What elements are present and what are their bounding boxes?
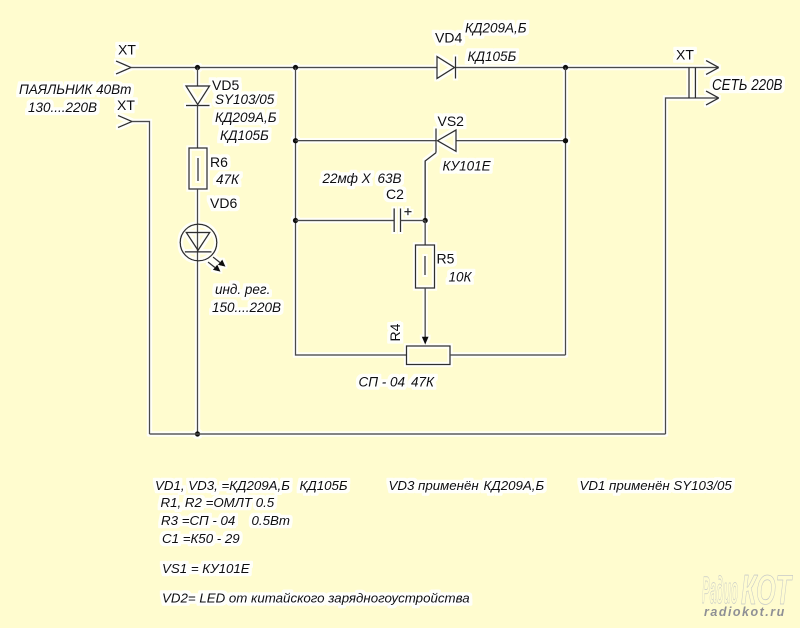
wire VS2 gate [425, 153, 436, 221]
capacitor C2 [394, 208, 400, 232]
svg-text:47К: 47К [216, 172, 240, 187]
svg-text:R1, R2 =ОМЛТ 0.5: R1, R2 =ОМЛТ 0.5 [161, 495, 275, 510]
svg-text:22мф Х: 22мф Х [322, 171, 372, 186]
svg-text:СП - 04: СП - 04 [359, 375, 406, 390]
thyristor VS2 [436, 129, 456, 153]
svg-text:150....220В: 150....220В [212, 300, 281, 315]
svg-text:КД105Б: КД105Б [468, 49, 517, 64]
svg-text:КД209А,Б: КД209А,Б [215, 110, 277, 125]
wire right side riser [666, 98, 719, 434]
svg-text:XT: XT [117, 97, 135, 113]
connector pin arrow top [706, 61, 719, 75]
svg-text:R4: R4 [387, 323, 403, 341]
LED VD6 [180, 224, 217, 261]
svg-text:63В: 63В [378, 171, 402, 186]
node: gate / C2 / R5 [423, 218, 428, 223]
connector pin arrow bottom [706, 91, 719, 105]
svg-text:XT: XT [118, 42, 136, 58]
wire C2 right [401, 220, 426, 222]
svg-text:VS2: VS2 [438, 113, 465, 129]
svg-text:VD6: VD6 [210, 195, 237, 211]
terminal XT2 arrow [118, 116, 132, 128]
svg-text:ПАЯЛЬНИК 40Вт: ПАЯЛЬНИК 40Вт [19, 82, 131, 97]
svg-text:VD4: VD4 [435, 30, 462, 46]
svg-text:47К: 47К [411, 375, 435, 390]
diode VD5 [186, 86, 210, 106]
resistor R6 [189, 148, 207, 189]
svg-text:10К: 10К [449, 270, 473, 285]
node: top wire / VD5 branch [195, 65, 200, 70]
wire VS2 anode [456, 140, 566, 142]
wire bottom rail [150, 433, 666, 435]
wire mid vertical [296, 68, 407, 356]
connector XT plug bars [689, 68, 695, 99]
resistor R5 [416, 245, 435, 288]
svg-text:VD1 применён SY103/05: VD1 применён SY103/05 [580, 478, 733, 493]
svg-text:инд. рег.: инд. рег. [215, 282, 270, 297]
node: top wire / right vertical [563, 65, 568, 70]
svg-text:СЕТЬ 220В: СЕТЬ 220В [712, 77, 783, 94]
svg-text:VD3 применён: VD3 применён [389, 478, 480, 493]
node: mid vertical / VS2 wire [293, 138, 298, 143]
wire C2 left [296, 220, 395, 222]
svg-text:КД105Б: КД105Б [300, 478, 348, 493]
wire top rail right of VD4 to plug [456, 67, 719, 69]
wire VD5 to R6 [197, 106, 199, 149]
svg-text:R5: R5 [437, 251, 455, 267]
wire top rail left of VD4 [131, 67, 437, 69]
C2 polarity plus [404, 208, 411, 215]
terminal XT1 arrow [116, 61, 131, 74]
wire VS2 cathode [296, 140, 437, 142]
svg-text:КУ101Е: КУ101Е [443, 159, 492, 174]
wire XT2 down left side [132, 122, 150, 435]
wire R4 right to right vertical [450, 354, 566, 356]
wire right vertical [565, 68, 567, 356]
svg-text:0.5Вт: 0.5Вт [252, 513, 290, 528]
wire R5 to R4 wiper [424, 288, 426, 337]
R4 wiper arrowhead [422, 337, 429, 345]
node: right vertical / VS2 wire [563, 138, 568, 143]
wire VD5 branch upper [197, 68, 199, 87]
svg-text:КД209А,Б: КД209А,Б [465, 21, 527, 36]
svg-text:XT: XT [676, 47, 694, 63]
svg-text:КД105Б: КД105Б [220, 128, 269, 143]
svg-text:КД209А,Б: КД209А,Б [484, 478, 545, 493]
svg-text:С2: С2 [386, 186, 404, 202]
potentiometer R4 [407, 346, 451, 365]
node: mid vertical / C2 wire [293, 218, 298, 223]
node: top wire / mid vertical [293, 65, 298, 70]
svg-text:С1 =К50 - 29: С1 =К50 - 29 [162, 531, 240, 546]
svg-text:130....220В: 130....220В [28, 100, 97, 115]
svg-text:VS1 = КУ101Е: VS1 = КУ101Е [162, 561, 250, 576]
svg-text:R3 =СП - 04: R3 =СП - 04 [161, 513, 235, 528]
svg-text:VD2= LED от китайского зарядно: VD2= LED от китайского зарядногоустройст… [162, 590, 470, 605]
LED VD6 emission arrows [213, 257, 220, 263]
svg-text:radiokot.ru: radiokot.ru [704, 605, 786, 619]
svg-text:R6: R6 [210, 154, 228, 170]
wire node to R5 [424, 221, 426, 246]
wire R6 to VD6 [197, 189, 199, 434]
svg-text:VD5: VD5 [212, 77, 239, 93]
svg-text:VD1, VD3, =КД209А,Б: VD1, VD3, =КД209А,Б [155, 478, 290, 493]
svg-text:SY103/05: SY103/05 [215, 92, 275, 107]
diode VD4 [437, 57, 456, 79]
node: bottom rail / LED branch [195, 431, 200, 436]
